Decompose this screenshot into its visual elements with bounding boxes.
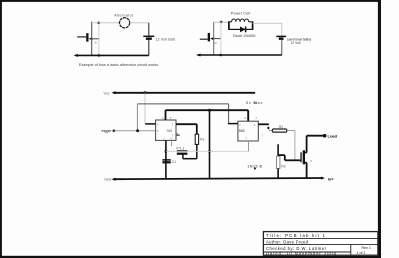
svg-text:2l: 2l bbox=[94, 41, 97, 45]
transistor Q1 (example circuit 1) bbox=[77, 22, 99, 56]
ground rail bbox=[111, 177, 325, 181]
svg-text:C1: C1 bbox=[172, 160, 176, 164]
drain wire to load bbox=[307, 134, 327, 153]
U2 bottom pin stub bbox=[248, 141, 250, 151]
junction node on Vcc wire bbox=[208, 109, 211, 112]
svg-text:12 Volt Batt: 12 Volt Batt bbox=[156, 37, 176, 41]
svg-text:B: B bbox=[328, 177, 331, 181]
wire lamp to battery bbox=[130, 22, 149, 24]
resistor R1 bbox=[195, 134, 204, 144]
svg-text:Diode 1N4001: Diode 1N4001 bbox=[233, 34, 256, 38]
ground wire circuit 2 bbox=[196, 54, 282, 57]
svg-text:trigger: trigger bbox=[102, 129, 113, 133]
svg-text:1 of 1: 1 of 1 bbox=[357, 251, 366, 255]
Vcc rail bbox=[111, 91, 255, 94]
svg-text:555: 555 bbox=[239, 129, 245, 133]
U1 pin 3 output wire to R1 bbox=[176, 124, 197, 134]
U1 pin 5 stub bbox=[171, 140, 173, 146]
wire R3 to MOSFET gate bbox=[278, 155, 300, 160]
U1 pin 8 top pin bbox=[165, 110, 167, 120]
trigger bus rail bbox=[137, 104, 228, 131]
flyback diode D1 bbox=[229, 27, 256, 39]
svg-text:5v Max: 5v Max bbox=[246, 100, 263, 105]
sheet border top bbox=[0, 0, 381, 2]
svg-text:Alternator: Alternator bbox=[114, 13, 134, 17]
emitter branch wire circuit 2 bbox=[219, 21, 222, 57]
op IC U1 555 box bbox=[156, 116, 176, 140]
wire coil to battery bbox=[253, 23, 282, 36]
svg-text:2l: 2l bbox=[214, 41, 217, 45]
faint pullup wire node to pin2 bbox=[144, 93, 146, 124]
svg-text:555: 555 bbox=[167, 129, 173, 133]
capacitor C1 bbox=[162, 160, 176, 164]
svg-text:Example of how a basic alterna: Example of how a basic alternator circui… bbox=[79, 63, 158, 67]
svg-text:R3: R3 bbox=[281, 165, 285, 169]
U2 pin 3 output stub bbox=[258, 124, 269, 129]
svg-text:Power Coil: Power Coil bbox=[231, 12, 251, 16]
ground wire circuit 1 bbox=[74, 54, 149, 57]
svg-text:12 Volt: 12 Volt bbox=[291, 41, 301, 45]
B- label bbox=[328, 177, 333, 181]
R1 bottom lead bbox=[183, 144, 197, 158]
wire junction to ground rail bbox=[208, 110, 211, 179]
title block rev cell text bbox=[357, 246, 371, 255]
svg-text:Load: Load bbox=[328, 134, 338, 139]
svg-text:Vcc: Vcc bbox=[104, 91, 110, 95]
wire transistor to coil bbox=[214, 21, 229, 23]
svg-text:Dated: 10 November 2004: Dated: 10 November 2004 bbox=[266, 251, 337, 256]
sheet border bottom bbox=[0, 256, 381, 258]
wire transistor to lamp bbox=[92, 22, 120, 24]
MOSFET Q3 bbox=[300, 150, 312, 164]
control net thin wire bbox=[166, 150, 249, 152]
svg-text:Gnd: Gnd bbox=[104, 178, 111, 182]
svg-text:R2: R2 bbox=[279, 125, 283, 129]
capacitor C2 0.1uF bbox=[176, 146, 187, 153]
U1 pin 7 stub bbox=[176, 133, 180, 135]
battery B1 bbox=[143, 23, 175, 56]
svg-text:Rev 1: Rev 1 bbox=[362, 246, 371, 250]
U1 pin 1 ground lead bbox=[165, 140, 168, 179]
resistor R3 pulldown bbox=[277, 144, 286, 178]
sheet border left bbox=[0, 0, 2, 258]
source wire to ground bbox=[306, 163, 308, 179]
emitter branch wire circuit 1 bbox=[97, 22, 100, 57]
transistor Q2 (example circuit 2) bbox=[200, 22, 221, 55]
svg-text:R1: R1 bbox=[200, 137, 204, 141]
wire R2 down to gate bbox=[294, 131, 296, 161]
trigger input node bbox=[113, 130, 115, 132]
U1 pin 2 stub bbox=[145, 123, 155, 125]
svg-text:Author: Dave Freed: Author: Dave Freed bbox=[266, 240, 309, 245]
svg-text:F: F bbox=[310, 159, 312, 163]
wire trigger bus to U2 pin 2 bbox=[228, 123, 238, 125]
label 1N15B under U2 bbox=[247, 164, 262, 169]
IC U2 555 box bbox=[238, 116, 258, 141]
lamp / alternator circle bbox=[114, 13, 134, 27]
sheet border right bbox=[378, 0, 381, 258]
trigger wire bbox=[115, 129, 156, 132]
battery B2 bbox=[276, 36, 311, 55]
title block bbox=[263, 232, 378, 256]
svg-text:0=1.2: 0=1.2 bbox=[176, 146, 185, 150]
resistor R2 bbox=[269, 125, 295, 132]
Vcc wire U1 to U2 bbox=[166, 110, 249, 121]
relay coil L1 bbox=[229, 12, 253, 30]
